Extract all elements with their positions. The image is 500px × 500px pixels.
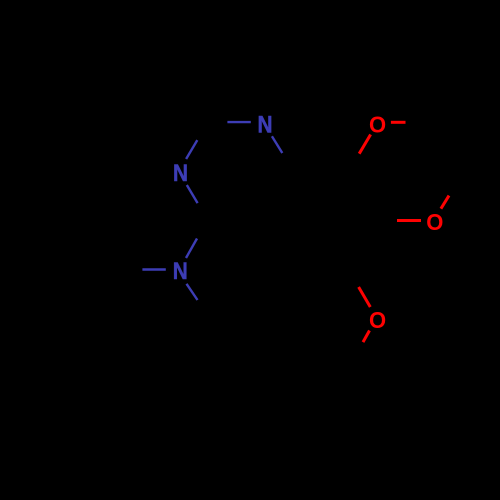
wire: bond C8-Oa (red) [359, 135, 370, 154]
wire: bond C7-Ob (red, horizontal) [397, 219, 421, 222]
wire: bond C2-N1 (blue half near N1) [227, 121, 250, 123]
wire: bond Oa-CH3 (red, horizontal) [391, 121, 406, 124]
wire: bond CH3-N10 (blue, horizontal) [142, 268, 165, 270]
svg-text:N: N [173, 159, 188, 186]
wire: bond Oc-CH3 (red stub) [363, 331, 370, 343]
svg-text:O: O [369, 306, 386, 333]
svg-text:N: N [257, 111, 272, 138]
svg-text:O: O [426, 208, 443, 235]
wire: bond C6-Oc (red) [359, 287, 371, 307]
wire: bond N3-C4 (blue) [187, 185, 198, 203]
wire: bond N1-C8a (blue) [272, 136, 282, 153]
svg-text:N: N [173, 258, 188, 285]
wire: bond C2-N3 (blue half near N3) [186, 140, 197, 159]
wire: bond N10-CH2 (blue, down-right) [187, 284, 198, 300]
wire: bond N10-C4 (blue, up-right) [186, 239, 197, 259]
wire: bond Ob-CH3 (red stub) [441, 196, 449, 209]
svg-text:O: O [369, 111, 386, 138]
